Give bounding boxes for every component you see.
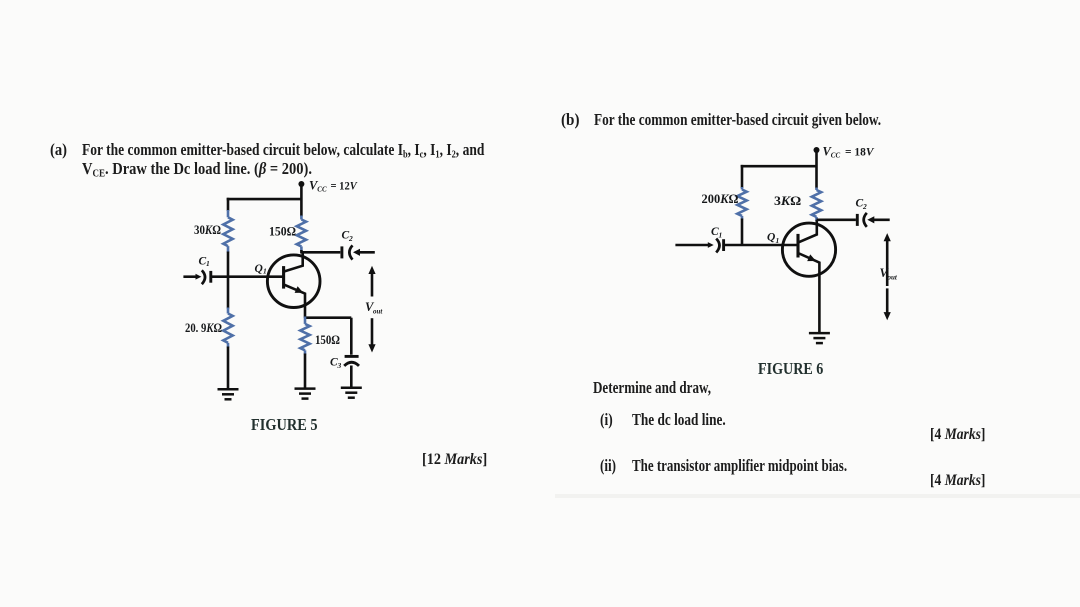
svg-text:out: out bbox=[888, 273, 898, 281]
svg-text:3: 3 bbox=[337, 361, 342, 370]
svg-text:CC: CC bbox=[317, 185, 327, 193]
svg-text:30KΩ: 30KΩ bbox=[194, 223, 221, 237]
svg-text:3KΩ: 3KΩ bbox=[774, 194, 801, 208]
svg-text:= 18V: = 18V bbox=[845, 144, 874, 158]
svg-text:Q: Q bbox=[255, 263, 263, 275]
svg-text:1: 1 bbox=[719, 231, 723, 240]
svg-text:Q: Q bbox=[767, 232, 775, 244]
svg-text:150Ω: 150Ω bbox=[315, 333, 340, 347]
svg-text:150Ω: 150Ω bbox=[269, 224, 296, 238]
svg-text:1: 1 bbox=[776, 236, 780, 245]
svg-text:out: out bbox=[373, 308, 383, 316]
svg-text:20. 9KΩ: 20. 9KΩ bbox=[185, 321, 222, 335]
svg-text:2: 2 bbox=[348, 234, 353, 243]
svg-text:1: 1 bbox=[206, 259, 210, 268]
svg-text:= 12V: = 12V bbox=[331, 178, 358, 192]
svg-text:CC: CC bbox=[831, 151, 841, 159]
svg-text:1: 1 bbox=[263, 266, 267, 275]
svg-text:200KΩ: 200KΩ bbox=[702, 192, 739, 206]
svg-text:2: 2 bbox=[862, 202, 867, 211]
